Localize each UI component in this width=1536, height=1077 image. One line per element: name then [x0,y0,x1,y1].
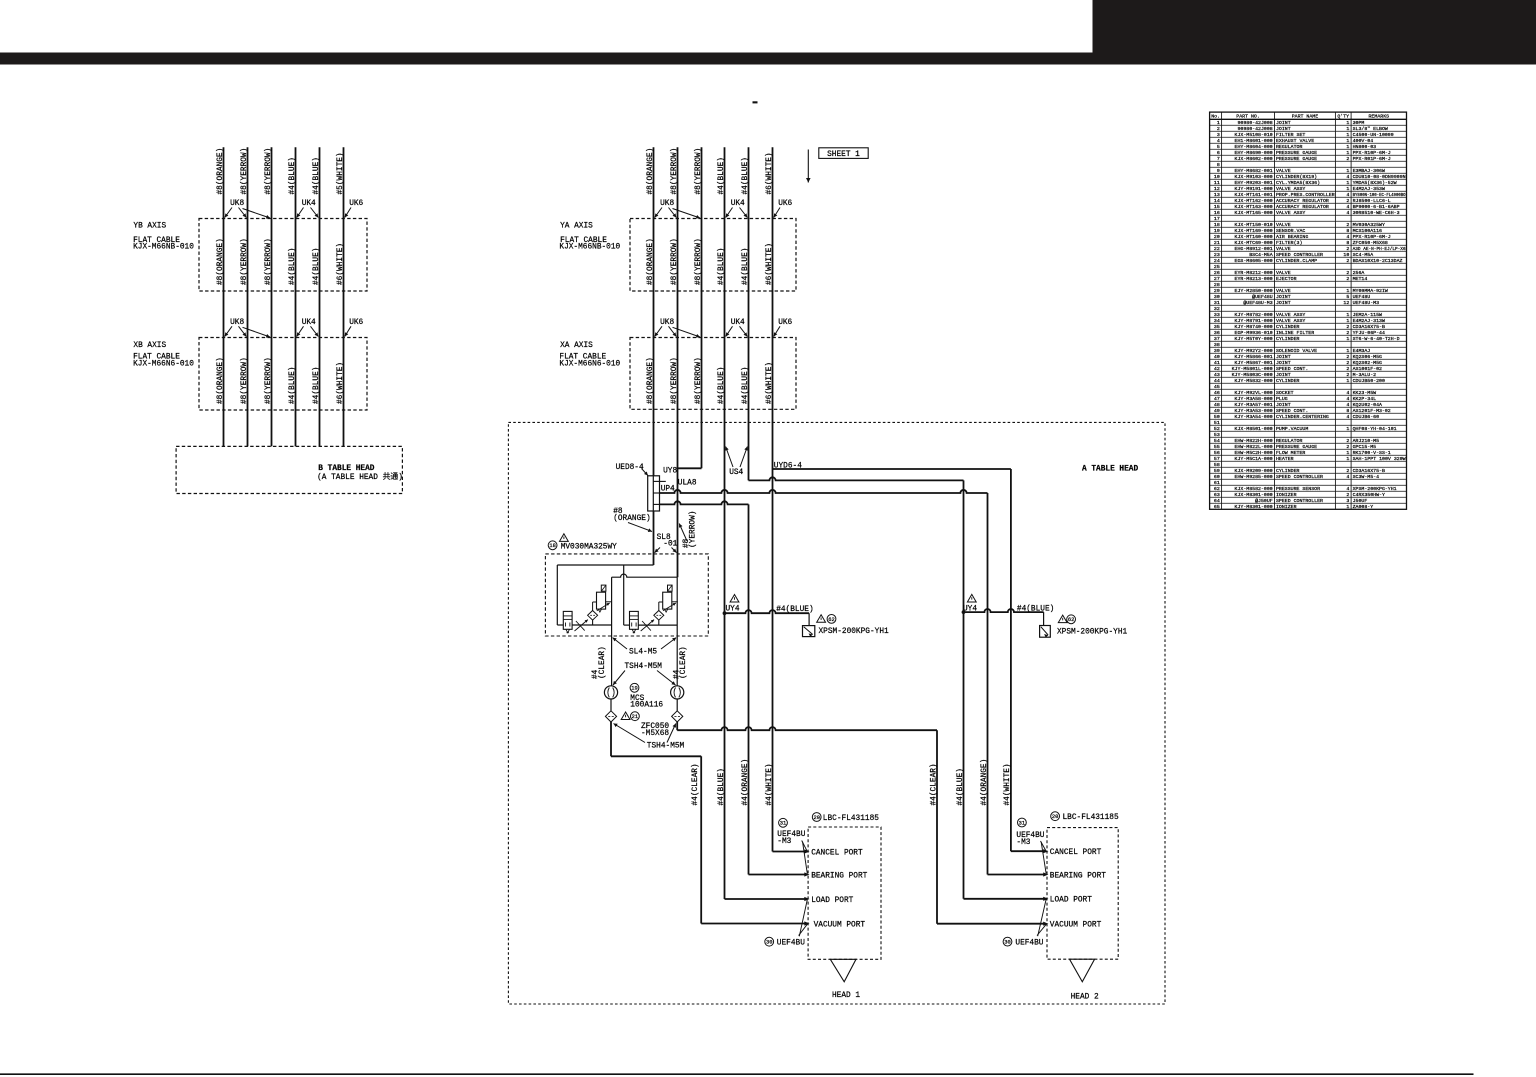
wire supply2 horizontal [612,574,678,577]
svg-text:30: 30 [766,940,772,946]
wire manifold to line5 lower [660,501,749,504]
svg-text:6: 6 [1217,150,1220,156]
svg-text:4: 4 [1346,486,1349,492]
svg-text:JOINT: JOINT [1276,126,1291,132]
svg-text:12: 12 [1214,186,1220,192]
svg-text:4: 4 [1346,474,1349,480]
circled 31 h2 [1018,818,1027,827]
svg-text:SOCKET: SOCKET [1276,390,1294,396]
svg-text:#6(WHITE): #6(WHITE) [337,362,345,404]
svg-text:58: 58 [1214,462,1220,468]
svg-text:KK2P-34L: KK2P-34L [1353,396,1377,402]
sensor stub left [808,613,810,625]
svg-text:4: 4 [1346,204,1349,210]
svg-text:EXHAUST VALVE: EXHAUST VALVE [1276,138,1314,144]
svg-text:EHY-M8604-000: EHY-M8604-000 [1235,144,1273,150]
svg-text:KJY-M8740-000: KJY-M8740-000 [1235,324,1273,330]
svg-text:EJECTOR: EJECTOR [1276,276,1297,282]
svg-text:CYLINDER.CLAMP: CYLINDER.CLAMP [1276,258,1317,264]
svg-text:JOINT: JOINT [1276,372,1291,378]
svg-text:18: 18 [549,543,555,549]
svg-text:19: 19 [631,686,637,692]
circled 20 h1 [812,813,821,822]
svg-text:KJY-M3A57-001: KJY-M3A57-001 [1235,402,1273,408]
svg-text:#8(YERROW): #8(YERROW) [695,148,703,195]
svg-text:31: 31 [780,821,786,827]
svg-text:UK6: UK6 [778,319,792,327]
svg-text:-M5X68: -M5X68 [641,730,669,738]
svg-text:ZA008-Y: ZA008-Y [1353,504,1374,510]
svg-text:KJX-MT162-000: KJX-MT162-000 [1235,198,1273,204]
wire A-side line5 #4(BLUE) upper [748,147,750,480]
circled 62 left [827,615,836,624]
svg-text:EJY-M2850-000: EJY-M2850-000 [1235,288,1273,294]
svg-text:#8(YERROW): #8(YERROW) [671,238,679,285]
svg-text:VALVE: VALVE [1276,270,1291,276]
sensor tee left [723,611,727,615]
svg-text:UK8: UK8 [230,319,244,327]
svg-text:2: 2 [1346,246,1349,252]
B TABLE HEAD box [176,446,402,493]
svg-text:@UEF48U-M3: @UEF48U-M3 [1243,300,1272,306]
node corner 1010.9 [1010,469,1012,851]
svg-text:UED8-4: UED8-4 [616,464,644,472]
svg-text:B TABLE HEAD: B TABLE HEAD [318,465,374,473]
svg-text:62: 62 [828,617,834,623]
YA AXIS flat cable box [630,219,796,292]
svg-text:CYLINDER: CYLINDER [1276,468,1300,474]
svg-text:LOAD PORT: LOAD PORT [1050,897,1092,905]
svg-text:KJX-MT163-000: KJX-MT163-000 [1235,204,1273,210]
svg-text:2: 2 [1346,354,1349,360]
svg-text:10: 10 [1343,252,1349,258]
svg-text:KJY-M92Y2-000: KJY-M92Y2-000 [1235,348,1273,354]
TSH4 lower leader right [667,724,676,743]
svg-text:VALVE ASSY: VALVE ASSY [1276,210,1305,216]
svg-text:VALVE ASSY: VALVE ASSY [1276,312,1305,318]
svg-text:12: 12 [1343,300,1349,306]
svg-text:#8(YERROW): #8(YERROW) [695,238,703,285]
wire B-side line4 #4(BLUE) [295,147,297,446]
svg-text:XB AXIS: XB AXIS [133,342,166,350]
svg-text:XPSM-200KPG-YH1: XPSM-200KPG-YH1 [1057,628,1128,636]
svg-text:TSH4-M5M: TSH4-M5M [647,742,685,750]
wire A-side line4 #4(BLUE) [724,147,726,899]
svg-text:63: 63 [1214,492,1220,498]
svg-text:1: 1 [1346,348,1349,354]
svg-text:#4(BLUE): #4(BLUE) [718,248,726,285]
svg-text:VALVE: VALVE [1276,288,1291,294]
svg-text:AS1201F-M3-02: AS1201F-M3-02 [1353,408,1391,414]
svg-text:#4(BLUE): #4(BLUE) [718,367,726,404]
svg-text:#8(YERROW): #8(YERROW) [241,357,249,404]
vac sensor circle right [671,686,684,699]
svg-text:UEF4BU: UEF4BU [1015,940,1043,948]
svg-text:22: 22 [1214,246,1220,252]
US4 arrow left [726,447,733,468]
svg-text:TSH4-M5M: TSH4-M5M [625,663,663,671]
wire B-side line1 #8(ORANGE) [223,147,225,446]
svg-text:UK4: UK4 [302,200,316,208]
SL8 leader left [655,548,660,553]
svg-text:#4(BLUE): #4(BLUE) [313,367,321,404]
svg-text:50: 50 [1214,414,1220,420]
head2 box [1047,828,1118,960]
svg-text:29: 29 [1214,288,1220,294]
svg-text:#4(BLUE): #4(BLUE) [742,157,750,194]
svg-text:7: 7 [1217,156,1220,162]
svg-text:#5(WHITE): #5(WHITE) [337,152,345,194]
svg-text:18: 18 [1214,222,1220,228]
svg-text:2: 2 [1346,444,1349,450]
svg-text:REMARKS: REMARKS [1369,113,1390,119]
svg-text:1: 1 [1346,180,1349,186]
svg-text:CD3A16X75-B: CD3A16X75-B [1353,324,1385,330]
sensor stub right [1043,612,1045,625]
svg-text:2: 2 [1346,492,1349,498]
svg-text:BDAS10X10-2C13DAZ: BDAS10X10-2C13DAZ [1353,258,1403,264]
svg-text:2: 2 [1346,258,1349,264]
head1 triangle [830,959,856,982]
svg-text:J50UF: J50UF [1353,498,1368,504]
svg-text:M-3ALU-2: M-3ALU-2 [1353,372,1377,378]
svg-text:4: 4 [1346,414,1349,420]
svg-text:31: 31 [1019,820,1025,826]
svg-text:REGULATOR: REGULATOR [1276,438,1302,444]
svg-text:KJX-M8501-000: KJX-M8501-000 [1235,426,1273,432]
svg-text:38: 38 [1214,342,1220,348]
XA AXIS flat cable box [630,338,796,410]
manifold port tick 1 [653,480,666,482]
svg-text:49: 49 [1214,408,1220,414]
head1 box [808,827,881,959]
parts list table [1210,112,1407,509]
svg-text:30R8510-WE-C6H-3: 30R8510-WE-C6H-3 [1353,210,1400,216]
svg-text:#8(YERROW): #8(YERROW) [241,238,249,285]
svg-text:2: 2 [1346,468,1349,474]
svg-text:16: 16 [1214,210,1220,216]
svg-text:37: 37 [1214,336,1220,342]
wire left branch down [700,756,702,923]
svg-text:28: 28 [1214,282,1220,288]
svg-text:FILTER(3): FILTER(3) [1276,240,1302,246]
svg-text:KJX-M66N6-010: KJX-M66N6-010 [559,360,620,368]
svg-text:11: 11 [1214,180,1220,186]
svg-text:UEF4BU: UEF4BU [777,940,805,948]
warning triangle 21 [621,712,630,720]
wire load h1 [725,898,806,900]
svg-text:17: 17 [1214,216,1220,222]
svg-text:HN800-03: HN800-03 [1353,144,1377,150]
svg-text:BSC4-M5A: BSC4-M5A [1249,252,1273,258]
svg-text:VALVE: VALVE [1276,246,1291,252]
svg-text:VALVE ASSY: VALVE ASSY [1276,186,1305,192]
svg-text:30: 30 [1004,940,1010,946]
svg-text:8: 8 [1346,228,1349,234]
svg-text:UK4: UK4 [302,319,316,327]
svg-text:#8(YERROW): #8(YERROW) [265,357,273,404]
svg-text:MET14: MET14 [1353,276,1368,282]
svg-text:1: 1 [1346,144,1349,150]
svg-text:44: 44 [1214,378,1220,384]
uef leader h2 b [1037,924,1046,935]
svg-text:-01: -01 [663,541,677,549]
svg-text:PRESSURE SENSOR: PRESSURE SENSOR [1276,486,1320,492]
svg-text:KJX-MT169-000: KJX-MT169-000 [1235,228,1273,234]
svg-text:EGP-M9936-010: EGP-M9936-010 [1235,330,1273,336]
svg-text:KJY-M5801L-000: KJY-M5801L-000 [1232,366,1273,372]
svg-text:CYL.YMDA5(8X36): CYL.YMDA5(8X36) [1276,180,1320,186]
wire left filter down [610,722,612,756]
label UY4 left [730,595,739,603]
svg-text:#8(YERROW): #8(YERROW) [671,148,679,195]
svg-text:2: 2 [1346,366,1349,372]
svg-text:BEARING PORT: BEARING PORT [1050,872,1106,880]
svg-text:UK4: UK4 [731,200,745,208]
svg-text:1: 1 [1346,318,1349,324]
wire left branch horizontal [611,755,701,757]
valve assembly 2 (right) [630,611,639,629]
svg-text:62: 62 [1068,617,1074,623]
circled 30 h2 [1003,937,1012,946]
svg-text:25: 25 [1214,264,1220,270]
svg-text:JEM2A-115W: JEM2A-115W [1353,312,1382,318]
svg-text:SC4-M5A: SC4-M5A [1353,252,1374,258]
wire line1 into valve box [653,511,655,565]
svg-text:EHG-M8912-001: EHG-M8912-001 [1235,246,1273,252]
wire supply1 left drop [556,565,558,625]
svg-text:8: 8 [1217,162,1220,168]
svg-text:SENSOR.VAC: SENSOR.VAC [1276,228,1305,234]
svg-text:KJX-M8602-000: KJX-M8602-000 [1235,156,1273,162]
svg-text:A3D AE-N-PH-EJ/LP-X6: A3D AE-N-PH-EJ/LP-X6 [1353,246,1406,252]
svg-text:1: 1 [1346,288,1349,294]
svg-text:SPEED CONT.: SPEED CONT. [1276,366,1308,372]
manifold UED8-4 inner line [652,476,654,511]
svg-text:PLUG: PLUG [1276,396,1288,402]
svg-text:CYLINDER: CYLINDER [1276,336,1300,342]
svg-text:YA AXIS: YA AXIS [560,223,593,231]
svg-text:#4(BLUE): #4(BLUE) [718,157,726,194]
wire bearing h1 [749,874,806,876]
wire circle-diamond left [610,699,612,711]
svg-text:LBC-FL431185: LBC-FL431185 [823,815,879,823]
svg-text:E4M2AJ-313W: E4M2AJ-313W [1353,318,1385,324]
wire UY8 jog [678,467,702,469]
svg-text:KJY-M5866-001: KJY-M5866-001 [1235,354,1273,360]
wire cancel h1 [773,851,806,853]
svg-text:KJX-M9103-000: KJX-M9103-000 [1235,174,1273,180]
circled 30 h1 [765,937,774,946]
svg-text:46: 46 [1214,390,1220,396]
wire line5 lower segment [748,504,750,874]
svg-text:UY4: UY4 [963,605,977,613]
wire A-side line1 #8(ORANGE) upper [653,147,655,476]
head2 triangle [1070,959,1095,982]
wire line5 to head2 blue [749,477,964,480]
svg-text:2: 2 [1346,276,1349,282]
svg-text:33: 33 [1214,312,1220,318]
page mark dash [753,101,758,103]
label UY4 right [967,594,976,602]
svg-text:2: 2 [1346,222,1349,228]
svg-text:RJ8500-LLC6-L: RJ8500-LLC6-L [1353,198,1391,204]
title block box (top right) [1093,0,1536,65]
svg-text:#4(BLUE): #4(BLUE) [313,157,321,194]
svg-text:HEAD 2: HEAD 2 [1071,994,1099,1002]
svg-text:26: 26 [1214,270,1220,276]
TSH4 lower leader left [614,724,646,743]
uef leader h1 b [799,924,808,935]
svg-text:3: 3 [1217,132,1220,138]
wire supply1 tee drop [623,565,625,625]
svg-text:(YERROW): (YERROW) [689,511,697,548]
svg-text:E3MBAJ-306W: E3MBAJ-306W [1353,168,1385,174]
svg-text:256A: 256A [1353,270,1365,276]
svg-text:#4(BLUE): #4(BLUE) [1017,606,1054,614]
svg-text:KJY-M9191-000: KJY-M9191-000 [1235,186,1273,192]
svg-text:CANCEL PORT: CANCEL PORT [811,849,863,857]
svg-text:UK6: UK6 [349,200,363,208]
wire vacuum h1 [701,923,805,925]
svg-text:UY8: UY8 [663,468,677,476]
svg-text:#4(BLUE): #4(BLUE) [313,248,321,285]
svg-text:@J50UF: @J50UF [1255,498,1273,504]
svg-text:1: 1 [1346,312,1349,318]
svg-text:UK8: UK8 [660,200,674,208]
svg-text:KJY-M8782-000: KJY-M8782-000 [1235,312,1273,318]
svg-text:1: 1 [1346,450,1349,456]
svg-text:90980-42J008: 90980-42J008 [1237,126,1272,132]
svg-text:55: 55 [1214,444,1220,450]
wire supply1 horizontal [557,564,653,566]
svg-text:CDUJB6-60: CDUJB6-60 [1353,414,1379,420]
svg-text:VALVE: VALVE [1276,168,1291,174]
svg-text:#8(YERROW): #8(YERROW) [265,238,273,285]
pressure sensor left [803,626,815,637]
wire load h2 [964,898,1044,900]
svg-text:#6(WHITE): #6(WHITE) [766,243,774,285]
svg-text:1: 1 [1346,378,1349,384]
svg-text:YB AXIS: YB AXIS [133,223,166,231]
SL4 leader right [661,638,676,649]
svg-text:PART NO.: PART NO. [1236,113,1259,119]
svg-text:1: 1 [1346,126,1349,132]
svg-text:1: 1 [1346,150,1349,156]
svg-text:LBC-FL431185: LBC-FL431185 [1063,814,1119,822]
svg-text:ACCURACY REGULATOR: ACCURACY REGULATOR [1276,198,1329,204]
svg-text:5: 5 [1346,294,1349,300]
svg-text:CYLINDER.CENTERING: CYLINDER.CENTERING [1276,414,1329,420]
svg-text:JOINT: JOINT [1276,354,1291,360]
svg-text:KJX-MT160-000: KJX-MT160-000 [1235,234,1273,240]
svg-text:BP9000-6-B1-6ABP: BP9000-6-B1-6ABP [1353,204,1400,210]
svg-text:4: 4 [1346,174,1349,180]
svg-text:VALVE ASSY: VALVE ASSY [1276,318,1305,324]
svg-text:KJY-M3A54-000: KJY-M3A54-000 [1235,414,1273,420]
US4 arrow right [740,447,747,468]
svg-text:10: 10 [1214,174,1220,180]
wire vacuum h2 [937,923,1044,925]
svg-text:EHY-M8682-001: EHY-M8682-001 [1235,168,1273,174]
svg-text:CD3A16X75-B: CD3A16X75-B [1353,468,1385,474]
svg-text:MV030MA325WY: MV030MA325WY [561,543,617,551]
circled 18 [548,541,557,550]
svg-text:2: 2 [1346,270,1349,276]
svg-text:PUMP.VACUUM: PUMP.VACUUM [1276,426,1308,432]
sheet arrow [807,150,809,183]
wire valve out left [611,577,613,686]
svg-text:EHW-M9285-000: EHW-M9285-000 [1235,474,1273,480]
svg-text:4: 4 [1346,396,1349,402]
svg-text:KJY-M5T0Y-000: KJY-M5T0Y-000 [1235,336,1273,342]
sensor tee right [962,610,966,614]
wire A-side line2 #8(YERROW) [677,147,679,577]
svg-text:2: 2 [1217,126,1220,132]
svg-text:EHW-M822L-000: EHW-M822L-000 [1235,444,1273,450]
svg-text:A TABLE HEAD: A TABLE HEAD [1082,466,1138,474]
svg-text:VACUUM PORT: VACUUM PORT [814,921,866,929]
YB AXIS flat cable box [199,219,367,292]
svg-text:64: 64 [1214,498,1220,504]
svg-text:KJY-M5867-001: KJY-M5867-001 [1235,360,1273,366]
YERROW leader [679,524,687,542]
svg-text:MY09MMA-92IW: MY09MMA-92IW [1353,288,1388,294]
svg-text:#8(ORANGE): #8(ORANGE) [647,238,655,285]
svg-text:#4(ORANGE): #4(ORANGE) [981,759,989,806]
svg-text:EHY-M8690-000: EHY-M8690-000 [1235,150,1273,156]
svg-text:43: 43 [1214,372,1220,378]
TSH4 leader right [657,671,676,686]
svg-text:1: 1 [1346,168,1349,174]
svg-text:No.: No. [1211,113,1220,119]
warning triangle 62L [817,615,826,623]
svg-text:BY800N-100-EC-FL4900BO: BY800N-100-EC-FL4900BO [1353,192,1406,198]
SHEET 1 box [819,148,868,159]
svg-text:60: 60 [1214,474,1220,480]
svg-text:@UEF48U: @UEF48U [1252,294,1273,300]
svg-text:FILTER SET: FILTER SET [1276,132,1305,138]
svg-text:PRESSURE GAUGE: PRESSURE GAUGE [1276,150,1317,156]
svg-text:KJY-M5803C-000: KJY-M5803C-000 [1232,372,1273,378]
svg-text:VACUUM PORT: VACUUM PORT [1050,922,1102,930]
svg-text:KJY-M3A53-000: KJY-M3A53-000 [1235,408,1273,414]
svg-text:#4(CLEAR): #4(CLEAR) [931,763,939,805]
svg-text:CDU810-08-0DN9909N: CDU810-08-0DN9909N [1353,174,1406,180]
wire UYD6-4 to head2 white [773,468,1011,470]
svg-text:54: 54 [1214,438,1220,444]
svg-text:2: 2 [1346,198,1349,204]
wire valve2 ports [624,624,630,626]
svg-text:XPSM-200KPG-YH1: XPSM-200KPG-YH1 [819,628,890,636]
svg-text:#4(BLUE): #4(BLUE) [718,768,726,805]
svg-text:IONIZER: IONIZER [1276,504,1297,510]
wire B-side line2 #8(YERROW) [247,147,249,446]
circled 21 [631,712,640,721]
svg-text:27: 27 [1214,276,1220,282]
svg-text:15: 15 [1214,204,1220,210]
svg-text:ACCURACY REGULATOR: ACCURACY REGULATOR [1276,204,1329,210]
svg-text:AIR BEARING: AIR BEARING [1276,234,1308,240]
wire cancel h2 [1011,850,1044,852]
svg-text:61: 61 [1214,480,1220,486]
svg-text:KQ2S06-M5G: KQ2S06-M5G [1353,354,1382,360]
svg-text:1: 1 [1346,138,1349,144]
valve unit MV030 box [545,554,708,636]
svg-text:20: 20 [813,815,819,821]
svg-text:1: 1 [1346,186,1349,192]
svg-text:PRESSURE GAUGE: PRESSURE GAUGE [1276,444,1317,450]
